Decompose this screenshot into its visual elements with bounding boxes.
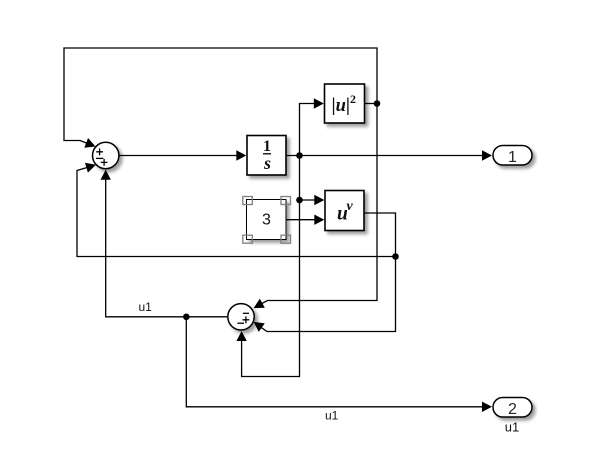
wire branch up from node A to Abs input bbox=[300, 104, 316, 156]
arrowhead into Out1 bbox=[482, 150, 492, 160]
arrowhead into Integrator input bbox=[236, 150, 246, 160]
constant block value 3 (selected) bbox=[247, 200, 287, 240]
svg-text:3: 3 bbox=[262, 212, 271, 229]
sum block Sum2 bbox=[228, 304, 254, 330]
selection handle bottom-left of Constant bbox=[243, 235, 253, 243]
svg-text:2: 2 bbox=[508, 401, 517, 418]
wire Abs output to node C bbox=[365, 103, 378, 105]
svg-text:v: v bbox=[347, 199, 354, 214]
svg-text:s: s bbox=[263, 153, 271, 173]
arrowhead into Math v input bbox=[314, 215, 324, 225]
wire Abs junction down to Sum2 top-right input bbox=[258, 104, 377, 306]
output port Out2 bbox=[493, 398, 532, 418]
output port Out1 bbox=[493, 146, 532, 167]
arrowhead into Out2 bbox=[482, 402, 492, 412]
selection handle bottom-right of Constant bbox=[281, 235, 291, 243]
svg-text:u1: u1 bbox=[325, 409, 339, 423]
wire Integrator output to Out1 bbox=[286, 155, 483, 157]
integrator block 1/s bbox=[247, 136, 286, 176]
arrowhead into Math u input bbox=[314, 195, 324, 205]
wire feedback from Abs output up over top to Sum1 upper-left input bbox=[64, 48, 377, 145]
wire branch down from node A to Sum2 bottom input bbox=[242, 156, 300, 377]
node A junction dot on Integrator output bbox=[296, 152, 303, 159]
node D junction dot on Math output bbox=[392, 253, 399, 260]
arrowhead into Sum1 lower-left bbox=[85, 160, 98, 173]
svg-text:1: 1 bbox=[508, 149, 517, 166]
wire node D left and up to Sum1 lower-left input bbox=[77, 167, 396, 256]
wire branch node E down to Out2 bbox=[186, 317, 483, 407]
node B junction dot feeding Math u input bbox=[296, 197, 303, 204]
abs-square block |u|^2 bbox=[325, 84, 365, 123]
node E junction dot on Sum2 output bbox=[183, 314, 190, 321]
svg-text:u1: u1 bbox=[505, 420, 519, 435]
node C junction dot on Abs output bbox=[374, 100, 381, 107]
arrowhead into Sum1 bottom bbox=[101, 170, 111, 180]
wire Sum2 output left to Sum1 bottom input bbox=[106, 177, 228, 317]
wire node D down to Sum2 right input bbox=[260, 257, 396, 332]
wire Constant output to Math v input bbox=[286, 219, 316, 221]
sum block Sum1 bbox=[93, 142, 119, 168]
arrowhead into Sum2 bottom bbox=[236, 331, 246, 341]
arrowhead into Sum1 upper-left bbox=[84, 138, 97, 151]
math power block u^v bbox=[325, 191, 364, 231]
arrowhead into Sum2 top-right bbox=[251, 299, 265, 313]
wire branch node B to Math u input bbox=[300, 199, 317, 201]
selection handle top-left of Constant bbox=[243, 197, 253, 205]
arrowhead into Abs input bbox=[314, 98, 324, 108]
wire Sum1 output to Integrator input bbox=[119, 155, 238, 157]
wire Math output down to node D bbox=[364, 213, 396, 257]
arrowhead into Sum2 right bbox=[251, 318, 265, 332]
svg-text:u1: u1 bbox=[139, 300, 153, 314]
selection handle top-right of Constant bbox=[281, 197, 291, 205]
